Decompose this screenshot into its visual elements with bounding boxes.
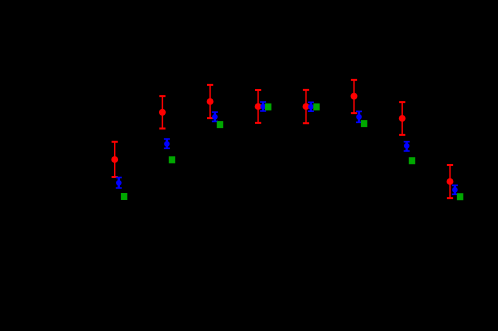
red error bar point 2 bbox=[159, 96, 165, 128]
red error bar point 4 bbox=[255, 90, 261, 123]
green square marker point 4 bbox=[265, 103, 271, 110]
blue circle marker point 2 bbox=[164, 141, 170, 147]
blue circle marker point 4 bbox=[260, 104, 266, 110]
red error bar point 5 bbox=[303, 90, 309, 123]
green square marker point 7 bbox=[409, 157, 415, 164]
green square marker point 5 bbox=[313, 103, 319, 110]
green square marker point 6 bbox=[361, 120, 367, 127]
blue error bar point 6 bbox=[356, 111, 362, 122]
blue error bar point 5 bbox=[308, 102, 314, 111]
red error bar point 1 bbox=[112, 142, 118, 177]
blue circle marker point 6 bbox=[356, 114, 362, 120]
blue error bar point 4 bbox=[260, 102, 266, 111]
blue circle marker point 5 bbox=[308, 104, 314, 110]
red circle marker point 4 bbox=[255, 103, 262, 110]
red circle marker point 2 bbox=[159, 109, 166, 116]
green square marker point 3 bbox=[217, 121, 223, 128]
red circle marker point 7 bbox=[399, 115, 406, 122]
red error bar point 6 bbox=[351, 80, 357, 113]
red circle marker point 5 bbox=[303, 103, 310, 110]
blue circle marker point 3 bbox=[212, 114, 218, 120]
red circle marker point 1 bbox=[111, 156, 118, 163]
blue error bar point 8 bbox=[452, 185, 458, 194]
blue error bar point 3 bbox=[212, 112, 218, 121]
red circle marker point 6 bbox=[351, 93, 358, 100]
red circle marker point 3 bbox=[207, 98, 214, 105]
red error bar point 8 bbox=[447, 165, 453, 198]
red error bar point 7 bbox=[399, 102, 405, 135]
red circle marker point 8 bbox=[447, 178, 454, 185]
blue circle marker point 7 bbox=[404, 143, 410, 149]
green square marker point 8 bbox=[457, 193, 463, 200]
blue error bar point 2 bbox=[164, 139, 170, 148]
green square marker point 1 bbox=[121, 193, 127, 200]
green square marker point 2 bbox=[169, 156, 175, 163]
blue error bar point 1 bbox=[116, 178, 122, 189]
blue circle marker point 8 bbox=[452, 187, 458, 193]
blue error bar point 7 bbox=[404, 142, 410, 151]
blue circle marker point 1 bbox=[116, 180, 122, 186]
red error bar point 3 bbox=[207, 85, 213, 118]
